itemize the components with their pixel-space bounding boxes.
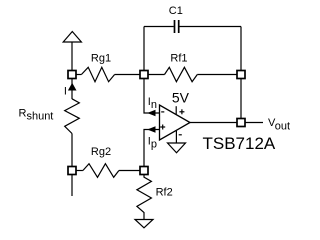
resistor Rshunt bbox=[65, 99, 80, 134]
node (bottom-middle terminal) bbox=[140, 167, 148, 175]
ground (below Rf2) bbox=[135, 220, 153, 228]
current arrow I bbox=[68, 83, 77, 91]
resistor Rf1 bbox=[165, 67, 198, 81]
node (bottom-left terminal) bbox=[68, 167, 76, 175]
op-amp inverting input mark - bbox=[161, 111, 164, 113]
op-amp positive supply pin bbox=[175, 106, 177, 114]
wire bbox=[115, 74, 140, 76]
capacitor C1 bbox=[174, 20, 176, 33]
wire (C1 right riser) bbox=[240, 27, 242, 71]
wire (to Vout) bbox=[245, 122, 263, 124]
wire (open stub below bottom-left node) bbox=[71, 175, 73, 197]
node (top-middle terminal) bbox=[140, 71, 148, 79]
ground (op-amp negative supply) bbox=[168, 143, 186, 153]
supply + mark bbox=[179, 111, 184, 113]
wire bbox=[179, 26, 241, 28]
wire bbox=[148, 74, 165, 76]
svg-text:I: I bbox=[64, 85, 67, 97]
resistor Rg1 bbox=[81, 67, 114, 81]
supply - mark bbox=[179, 134, 182, 136]
wire bbox=[71, 42, 73, 71]
resistor Rf2 bbox=[137, 175, 152, 220]
wire (op-amp output) bbox=[190, 122, 237, 124]
op-amp negative supply pin bbox=[175, 131, 177, 143]
svg-text:Rg1: Rg1 bbox=[91, 53, 111, 65]
op-amp non-inverting input mark + bbox=[160, 126, 165, 128]
wire bbox=[71, 134, 73, 168]
wire bbox=[197, 74, 237, 76]
svg-text:Rg2: Rg2 bbox=[91, 146, 111, 158]
svg-text:TSB712A: TSB712A bbox=[203, 134, 276, 153]
node (top-right terminal) bbox=[237, 71, 245, 79]
node (top-left terminal) bbox=[68, 71, 76, 79]
svg-text:Rf1: Rf1 bbox=[170, 53, 187, 65]
resistor Rg2 bbox=[83, 164, 119, 178]
supply arrow symbol (top-left off-page arrow) bbox=[63, 32, 81, 43]
wire (In branch down from top-middle node) bbox=[144, 79, 160, 114]
wire (C1 left riser) bbox=[143, 27, 145, 71]
wire bbox=[71, 78, 73, 99]
svg-text:5V: 5V bbox=[172, 90, 190, 106]
wire (Ip branch up from bottom-middle node) bbox=[144, 130, 160, 167]
svg-text:C1: C1 bbox=[169, 5, 183, 17]
wire bbox=[76, 170, 83, 172]
current arrow In bbox=[147, 110, 155, 116]
svg-text:Rf2: Rf2 bbox=[156, 187, 173, 199]
current arrow Ip bbox=[147, 126, 155, 132]
wire bbox=[144, 26, 174, 28]
wire bbox=[76, 74, 81, 76]
wire (right riser between nodes) bbox=[240, 79, 242, 119]
node (output terminal) bbox=[237, 119, 245, 127]
op-amp U1 triangle bbox=[160, 105, 191, 140]
wire bbox=[119, 170, 140, 172]
